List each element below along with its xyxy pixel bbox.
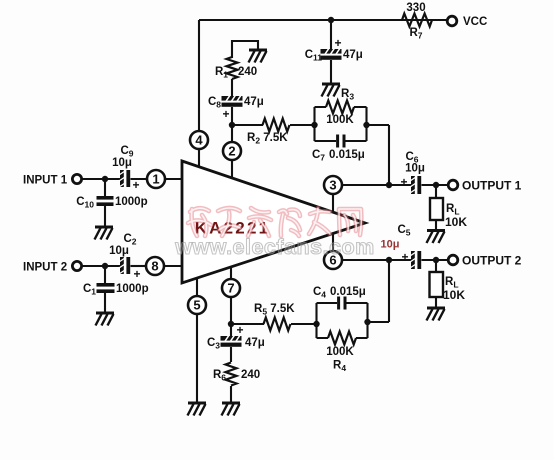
capacitor C2 xyxy=(109,233,140,281)
pin 3 xyxy=(324,176,342,194)
capacitor C10 xyxy=(76,196,147,210)
node output2 feedback tap xyxy=(386,257,392,263)
node feedback box right (lower) xyxy=(364,319,370,325)
wire upper box to output node xyxy=(367,125,390,184)
watermark char wang xyxy=(339,209,361,235)
wire pin 8 to op-amp xyxy=(164,265,182,267)
svg-text:OUTPUT 2: OUTPUT 2 xyxy=(462,254,522,268)
pin 6 xyxy=(324,251,342,269)
wire C10 bottom lead xyxy=(104,206,106,226)
resistor R6 xyxy=(213,363,260,386)
svg-text:47μ: 47μ xyxy=(244,96,264,108)
wire RL1 top lead xyxy=(435,185,437,198)
svg-text:R2 7.5K: R2 7.5K xyxy=(247,132,288,146)
capacitor C9 xyxy=(112,145,139,192)
wire pin 4 to op-amp xyxy=(198,149,200,167)
svg-text:1000p: 1000p xyxy=(116,283,149,295)
ground below C1 xyxy=(96,313,115,326)
wire lower box to output node xyxy=(368,261,390,322)
node pin7/R5 junction xyxy=(228,321,234,327)
wire R5 left lead xyxy=(231,323,264,325)
svg-text:+: + xyxy=(133,267,140,281)
INPUT 2 terminal xyxy=(72,261,81,270)
svg-text:47μ: 47μ xyxy=(343,49,363,61)
svg-text:VCC: VCC xyxy=(463,16,487,28)
node output1/RL junction xyxy=(433,182,439,188)
node top-rail junction to C11 xyxy=(328,17,334,23)
watermark char dian xyxy=(188,208,211,236)
capacitor C3 xyxy=(207,323,265,351)
svg-text:1: 1 xyxy=(152,172,159,187)
capacitor C6 xyxy=(400,151,424,194)
resistor R4 100K (lower box) xyxy=(326,332,356,374)
wire R2 right lead xyxy=(290,124,315,126)
svg-text:0.015μ: 0.015μ xyxy=(329,149,365,161)
wire pin 7 down xyxy=(230,297,232,337)
svg-text:INPUT 1: INPUT 1 xyxy=(23,175,68,187)
wire C6 to output 1 xyxy=(422,184,449,186)
wire C8 to pin 2 xyxy=(231,107,233,142)
svg-text:10K: 10K xyxy=(445,215,467,229)
svg-text:10μ: 10μ xyxy=(405,163,425,175)
ground below RL1 xyxy=(427,231,446,244)
svg-text:+: + xyxy=(132,178,139,192)
resistor R2 xyxy=(247,119,290,146)
svg-text:OUTPUT 1: OUTPUT 1 xyxy=(462,179,522,193)
svg-text:R5 7.5K: R5 7.5K xyxy=(254,303,295,317)
wire pin 2 to op-amp xyxy=(231,160,233,178)
svg-text:240: 240 xyxy=(238,66,257,78)
svg-text:7: 7 xyxy=(227,281,234,296)
node output2/RL junction xyxy=(433,257,439,263)
svg-text:47μ: 47μ xyxy=(245,337,265,349)
ground below RL2 xyxy=(427,308,446,321)
pin 5 xyxy=(188,296,206,314)
node feedback box left (lower) xyxy=(313,321,319,327)
label R3 xyxy=(341,88,354,102)
label KA2221 xyxy=(195,219,271,238)
ground at R1 bracket xyxy=(249,50,268,63)
node input2/C1 junction xyxy=(102,263,108,269)
svg-text:2: 2 xyxy=(228,144,235,159)
capacitor C5 xyxy=(381,224,422,269)
label INPUT 1 xyxy=(23,175,68,187)
svg-text:+: + xyxy=(334,36,341,50)
OUTPUT 2 terminal xyxy=(448,254,521,268)
wire pin 7 to op-amp xyxy=(230,267,232,279)
node pin2/R2 junction xyxy=(229,122,235,128)
wire output 2 line xyxy=(342,259,411,261)
resistor RL (output 1) xyxy=(430,198,467,229)
pin 8 xyxy=(146,257,164,275)
svg-text:100K: 100K xyxy=(326,346,354,358)
watermark char zi xyxy=(218,208,240,236)
VCC terminal xyxy=(447,16,487,28)
wire output 1 line xyxy=(342,184,411,186)
wire pin 5 to op-amp xyxy=(196,278,198,296)
wire R1 top bracket xyxy=(232,41,258,58)
svg-text:4: 4 xyxy=(195,133,203,148)
watermark url text xyxy=(174,235,375,259)
upper feedback box frame xyxy=(315,107,367,141)
svg-text:10K: 10K xyxy=(443,288,465,302)
svg-text:3: 3 xyxy=(329,178,336,193)
wire R2 left lead xyxy=(232,124,263,126)
op-amp U1 KA2221 xyxy=(182,161,365,283)
ground below C11 xyxy=(322,84,341,97)
svg-text:100K: 100K xyxy=(326,114,354,126)
capacitor C11 xyxy=(305,36,363,63)
svg-text:10μ: 10μ xyxy=(109,245,129,257)
ground below pin 5 xyxy=(188,403,207,416)
wire C1 bottom lead xyxy=(104,293,106,312)
svg-text:240: 240 xyxy=(241,369,260,381)
INPUT 1 terminal xyxy=(72,174,81,183)
resistor R3 100K (upper box) xyxy=(326,101,354,127)
svg-text:10μ: 10μ xyxy=(112,157,132,169)
wire R1 to C8 xyxy=(231,79,233,97)
svg-text:+: + xyxy=(400,175,407,189)
wire C3 to R6 xyxy=(230,347,232,362)
wire C11 bottom lead xyxy=(330,60,332,84)
wire RL2 bottom lead xyxy=(435,297,437,307)
svg-text:5: 5 xyxy=(193,298,200,313)
wire input1 to C9 xyxy=(82,178,120,180)
ground below R6 xyxy=(222,403,241,416)
svg-text:330: 330 xyxy=(406,2,425,14)
wire C11 top lead xyxy=(330,20,332,49)
wire pin 3 to op-amp xyxy=(332,194,334,212)
svg-text:www.elecfans.com: www.elecfans.com xyxy=(174,235,375,259)
lower feedback box frame xyxy=(317,303,368,338)
resistor RL (output 2) xyxy=(430,272,466,302)
pin 7 xyxy=(222,279,240,297)
node feedback box right (upper) xyxy=(363,122,369,128)
wire C9 to pin 1 xyxy=(131,178,148,180)
resistor R5 xyxy=(254,303,295,331)
wire R6 to ground xyxy=(230,386,232,402)
watermark char fa xyxy=(248,208,271,236)
svg-text:0.015μ: 0.015μ xyxy=(330,286,366,298)
node output1 feedback tap xyxy=(386,182,392,188)
label INPUT 2 xyxy=(23,262,67,274)
wire C5 to output 2 xyxy=(422,259,449,261)
pin 2 xyxy=(223,142,241,160)
svg-text:8: 8 xyxy=(151,259,158,274)
svg-text:INPUT 2: INPUT 2 xyxy=(23,262,67,274)
svg-text:+: + xyxy=(222,107,229,121)
OUTPUT 1 terminal xyxy=(448,179,521,193)
svg-text:+: + xyxy=(401,250,408,264)
wire pin 1 to op-amp xyxy=(165,178,182,180)
svg-text:+: + xyxy=(236,323,243,337)
resistor R7 xyxy=(402,2,432,41)
wire C10 top lead xyxy=(104,179,106,196)
wire input2 to C2 xyxy=(82,265,120,267)
wire C2 to pin 8 xyxy=(131,265,147,267)
watermark char shao xyxy=(279,210,300,236)
pin 4 xyxy=(190,131,208,149)
resistor R1 xyxy=(215,57,257,80)
capacitor C7 xyxy=(312,135,365,163)
watermark char you xyxy=(309,208,330,234)
wire RL1 bottom lead xyxy=(435,220,437,230)
pin 1 xyxy=(147,170,165,188)
node feedback box left (upper) xyxy=(311,122,317,128)
wire C1 top lead xyxy=(104,266,106,283)
node input1/C10 junction xyxy=(102,176,108,182)
svg-text:10μ: 10μ xyxy=(381,239,400,251)
wire R5 right lead xyxy=(291,323,317,325)
capacitor C4 xyxy=(313,286,366,310)
capacitor C8 xyxy=(208,95,264,121)
ground below C10 xyxy=(95,227,114,240)
capacitor C1 xyxy=(83,283,149,297)
wire pin 6 to op-amp xyxy=(332,233,334,251)
wire pin 5 to ground xyxy=(196,314,198,402)
svg-text:1000p: 1000p xyxy=(115,196,148,208)
wire RL2 top lead xyxy=(435,260,437,272)
wire top supply rail xyxy=(199,19,448,21)
wire pin 4 riser xyxy=(198,20,200,131)
